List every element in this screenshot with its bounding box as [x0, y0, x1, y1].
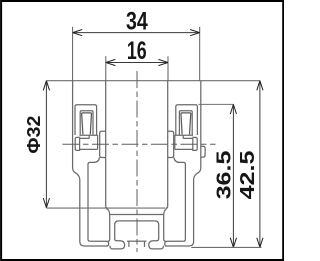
- right side clip tab: [201, 146, 205, 157]
- bracket boss: [100, 131, 106, 157]
- slot box inner wall / hook: [110, 221, 125, 249]
- axle body lines: [80, 138, 98, 149]
- axle cap: [75, 137, 79, 150]
- outer wall left with step and bottom corner: [73, 81, 108, 246]
- cavity ceiling line: [119, 220, 137, 222]
- svg-text:34: 34: [126, 8, 148, 36]
- dimension 36.5: extension line: [198, 103, 233, 105]
- hub verticals: [89, 135, 97, 149]
- dimension 36.5: arrowheads: [230, 104, 236, 247]
- vertical centerline: [136, 71, 138, 252]
- slot box top surface line: [110, 214, 137, 216]
- T-slot entry wall: [128, 241, 130, 247]
- wheel housing outer box: [75, 105, 97, 136]
- dimension 34: dimension line: [73, 32, 200, 34]
- 16-slot wall left with bottom corner into plate bottom: [106, 81, 108, 208]
- dimension 16: dimension line: [106, 62, 168, 64]
- dimension 34: arrowheads: [73, 30, 200, 36]
- dimension 42.5: arrowheads: [257, 81, 263, 248]
- wheel tread: [82, 113, 92, 134]
- Phi32 bottom reference line / hanger plate bottom: [46, 207, 165, 209]
- top reference line: [46, 80, 260, 82]
- cavity web line: [127, 240, 137, 242]
- svg-text:Φ32: Φ32: [23, 116, 44, 154]
- trolley wheel and axle assembly: right (mirrored, offset per target): [175, 105, 198, 151]
- svg-text:16: 16: [127, 37, 147, 65]
- dimension 42.5: vertical dimension line: [259, 81, 261, 248]
- dimension Phi32: arrowheads: [43, 81, 49, 208]
- rail profile: left half (mirrored for right): [73, 81, 137, 249]
- dimension Phi32: vertical dimension line: [45, 81, 47, 208]
- dimension 16: extension lines: [106, 56, 168, 80]
- dimension 34: extension lines: [73, 27, 200, 81]
- horizontal centerline (axle axis): [63, 143, 216, 145]
- wheel housing inner box: [80, 111, 93, 137]
- dimension 36.5: vertical dimension line: [232, 104, 234, 247]
- bottom flange nose: [90, 241, 109, 246]
- inner wall left: [88, 158, 99, 242]
- bottom reference line (36.5/42.5 landing): [191, 246, 261, 248]
- trolley wheel and axle assembly: left: [75, 105, 98, 151]
- slot box outer wall with fillet from plate bottom: [106, 208, 109, 241]
- svg-text:36.5: 36.5: [213, 151, 235, 200]
- svg-text:42.5: 42.5: [237, 151, 259, 200]
- wheel bottom / hub top line: [81, 134, 98, 136]
- dimension 16: arrowheads: [106, 59, 168, 65]
